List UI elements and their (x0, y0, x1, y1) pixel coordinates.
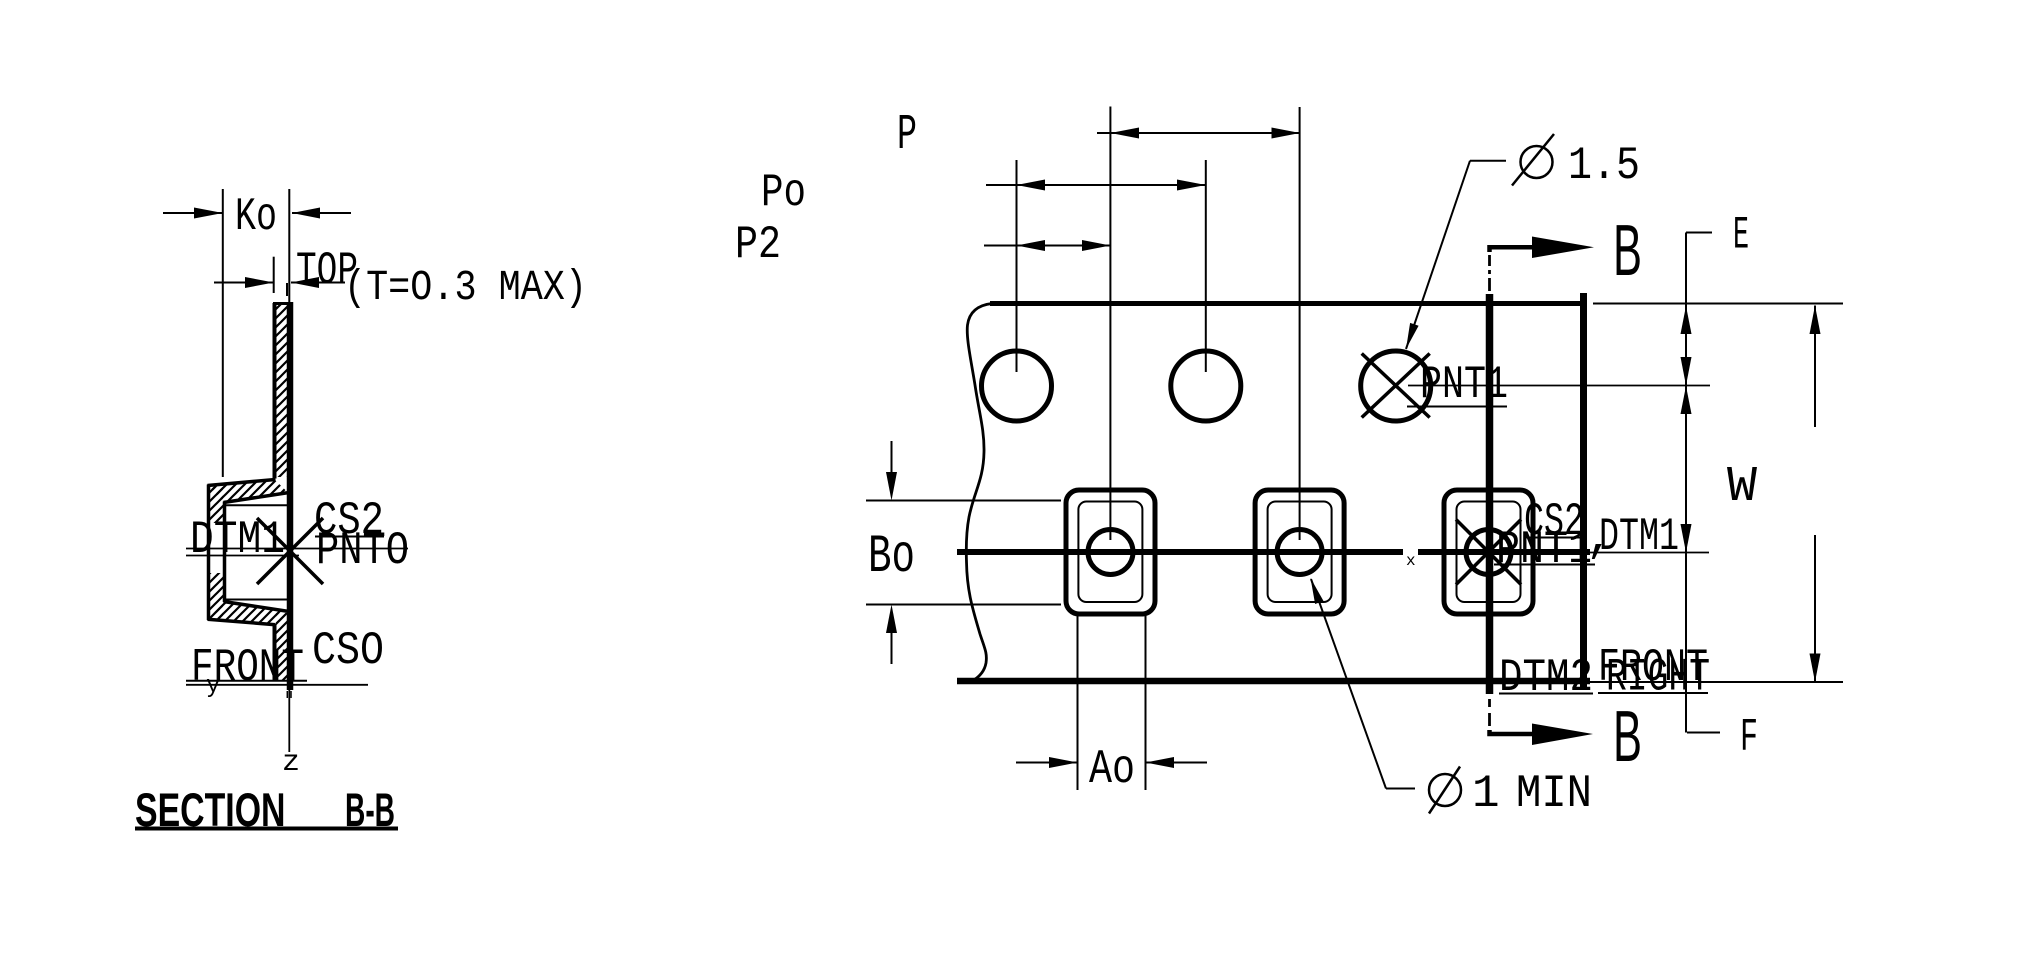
svg-text:SECTION: SECTION (135, 783, 286, 836)
svg-text:Ao: Ao (1089, 743, 1135, 797)
svg-text:CSO: CSO (312, 625, 384, 677)
svg-text:x: x (1406, 552, 1416, 570)
svg-text:E: E (1733, 210, 1749, 262)
svg-text:B: B (1613, 697, 1642, 777)
svg-text:Bo: Bo (868, 527, 915, 588)
svg-text:B-B: B-B (345, 783, 395, 836)
svg-text:PNT1: PNT1 (1496, 524, 1592, 576)
svg-text:Ko: Ko (235, 191, 277, 243)
svg-text:y: y (206, 673, 220, 700)
svg-text:,: , (1586, 513, 1614, 565)
svg-text:z: z (282, 746, 300, 780)
svg-text:MIN: MIN (1516, 768, 1592, 820)
svg-text:W: W (1727, 459, 1757, 516)
svg-text:1.5: 1.5 (1568, 140, 1640, 192)
svg-text:P2: P2 (735, 219, 781, 271)
svg-text:PNTO: PNTO (316, 525, 409, 577)
svg-text:PNT1: PNT1 (1420, 359, 1508, 411)
svg-text:DTM1: DTM1 (190, 514, 285, 566)
svg-text:B: B (1613, 211, 1642, 291)
svg-text:1: 1 (1472, 768, 1500, 820)
svg-text:RIGHT: RIGHT (1606, 652, 1710, 704)
svg-text:P: P (897, 107, 917, 164)
svg-text:DTM2: DTM2 (1499, 652, 1593, 704)
svg-text:Po: Po (761, 167, 806, 219)
svg-text:F: F (1740, 712, 1758, 764)
svg-text:(T=O.3 MAX): (T=O.3 MAX) (344, 263, 587, 312)
